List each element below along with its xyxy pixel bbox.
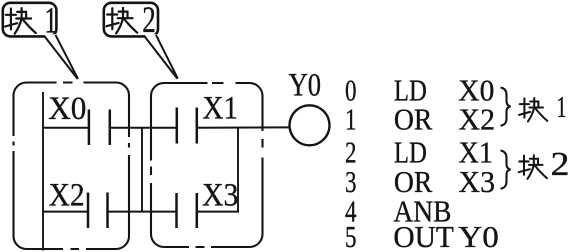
svg-text:OR: OR <box>394 102 433 137</box>
svg-text:X2: X2 <box>459 102 496 137</box>
callout bubble 块2 <box>104 0 178 79</box>
rung 1 wire (rail to X0) <box>43 127 88 129</box>
svg-text:2: 2 <box>551 146 569 183</box>
rung 1 wire (X0 to X1) <box>110 127 177 129</box>
coil Y0 <box>289 67 330 145</box>
label 块1 (right) <box>519 89 566 124</box>
svg-text:X2: X2 <box>49 178 85 214</box>
contact X0 <box>48 91 110 145</box>
svg-text:X1: X1 <box>203 91 239 127</box>
contact X2 <box>49 178 108 229</box>
rung 2 wire (X2 to X3) <box>108 211 178 213</box>
callout bubble 块1 <box>3 1 78 79</box>
svg-text:Y0: Y0 <box>289 67 322 103</box>
left power rail <box>42 92 44 251</box>
rung 2 wire (X3 to right junction) <box>197 211 239 213</box>
svg-text:1: 1 <box>345 102 357 137</box>
svg-text:2: 2 <box>142 0 156 41</box>
instruction list <box>345 73 499 252</box>
block 2 dashed box <box>148 80 266 250</box>
brace for block 1 rows <box>501 88 511 126</box>
rung 2 wire (rail to X2) <box>43 211 88 213</box>
svg-text:X3: X3 <box>202 178 239 214</box>
contact X3 <box>177 178 239 229</box>
label 块2 (right) <box>519 146 569 183</box>
svg-text:1: 1 <box>44 1 57 42</box>
brace for block 2 rows <box>501 151 511 189</box>
svg-text:5: 5 <box>345 219 357 252</box>
contact X1 <box>177 91 238 144</box>
svg-text:X3: X3 <box>459 164 496 199</box>
svg-text:1: 1 <box>557 89 567 124</box>
svg-text:OUT: OUT <box>393 219 454 252</box>
junction wire (right vertical joining rungs) <box>237 128 239 212</box>
svg-text:Y0: Y0 <box>458 219 499 252</box>
rung 1 wire (X1 to coil) <box>197 126 289 128</box>
block 1 dashed box <box>11 80 133 252</box>
svg-text:X0: X0 <box>48 91 86 127</box>
junction wire (middle vertical between blocks) <box>141 128 143 212</box>
